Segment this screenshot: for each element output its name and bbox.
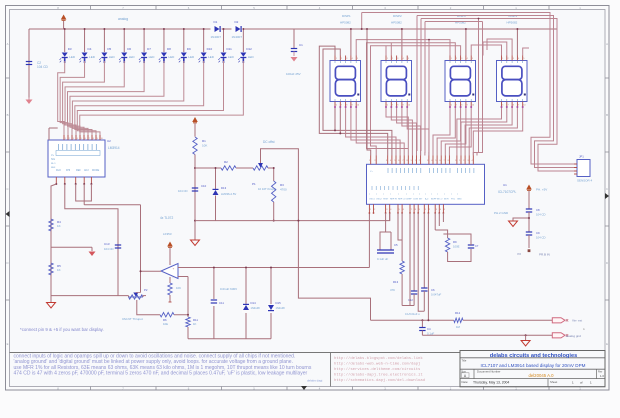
svg-text:4: 4 bbox=[352, 58, 353, 60]
svg-text:1N4007: 1N4007 bbox=[232, 35, 243, 39]
svg-text:104 CD: 104 CD bbox=[104, 247, 113, 251]
svg-text:C6: C6 bbox=[431, 288, 435, 292]
svg-text:P2: P2 bbox=[144, 288, 148, 292]
svg-text:D3: D3 bbox=[68, 47, 72, 51]
svg-text:DISP2: DISP2 bbox=[393, 14, 402, 18]
svg-text:-: - bbox=[173, 275, 174, 279]
svg-text:1: 1 bbox=[387, 58, 388, 60]
svg-text:9: 9 bbox=[467, 105, 468, 107]
svg-text:ADJ: ADJ bbox=[84, 169, 89, 172]
svg-text:HP5082: HP5082 bbox=[507, 21, 518, 25]
svg-text:http://services.deltheme.com/c: http://services.deltheme.com/circuits bbox=[334, 367, 421, 372]
svg-text:10E: 10E bbox=[163, 322, 168, 326]
svg-text:Vin- ext: Vin- ext bbox=[572, 318, 582, 322]
svg-text:R1: R1 bbox=[202, 139, 206, 143]
svg-text:R3: R3 bbox=[280, 183, 284, 187]
svg-text:JP1: JP1 bbox=[579, 155, 584, 159]
svg-text:Sheet: Sheet bbox=[550, 380, 558, 384]
svg-text:ICL7107CPL: ICL7107CPL bbox=[498, 190, 516, 194]
svg-text:*connect pin 9 & +5 if you wan: *connect pin 9 & +5 if you want bar disp… bbox=[20, 327, 104, 332]
svg-text:E: E bbox=[606, 342, 608, 346]
svg-text:C: C bbox=[6, 187, 8, 191]
svg-text:9: 9 bbox=[403, 105, 404, 107]
svg-text:8: 8 bbox=[513, 105, 514, 107]
svg-text:5: 5 bbox=[408, 58, 409, 60]
svg-text:1N4148: 1N4148 bbox=[276, 306, 286, 310]
svg-text:C8: C8 bbox=[536, 208, 540, 212]
svg-text:100E: 100E bbox=[453, 245, 460, 249]
svg-text:P2: P2 bbox=[518, 252, 522, 256]
svg-text:0.1uF uF: 0.1uF uF bbox=[377, 257, 388, 261]
svg-text:LED: LED bbox=[228, 55, 235, 59]
svg-text:+: + bbox=[173, 267, 175, 271]
svg-text:1N4007: 1N4007 bbox=[211, 35, 222, 39]
svg-text:C11: C11 bbox=[219, 301, 224, 305]
svg-text:LED: LED bbox=[109, 55, 116, 59]
svg-text:9: 9 bbox=[518, 105, 519, 107]
svg-text:LM336-2.5V: LM336-2.5V bbox=[221, 192, 236, 196]
svg-text:D4: D4 bbox=[88, 47, 92, 51]
svg-text:IN HI: IN HI bbox=[444, 199, 449, 201]
svg-text:0.047uF: 0.047uF bbox=[431, 293, 442, 297]
svg-text:8: 8 bbox=[93, 138, 94, 140]
svg-text:C13: C13 bbox=[104, 242, 110, 246]
svg-text:2: 2 bbox=[508, 58, 509, 60]
svg-text:10: 10 bbox=[101, 138, 103, 140]
svg-text:REF LO: REF LO bbox=[398, 199, 406, 201]
svg-text:D9: D9 bbox=[187, 47, 191, 51]
svg-text:C9: C9 bbox=[536, 231, 540, 235]
svg-text:10K: 10K bbox=[176, 286, 181, 290]
svg-text:http://delabs.blogspot.com/del: http://delabs.blogspot.com/delabs-link bbox=[334, 356, 423, 361]
svg-text:1: 1 bbox=[451, 58, 452, 60]
svg-text:6: 6 bbox=[85, 138, 86, 140]
svg-text:R2: R2 bbox=[224, 160, 228, 164]
svg-text:1: 1 bbox=[502, 58, 503, 60]
svg-text:P1: P1 bbox=[252, 182, 256, 186]
svg-text:8: 8 bbox=[346, 105, 347, 107]
svg-text:RLO: RLO bbox=[51, 163, 56, 165]
svg-text:104 CD: 104 CD bbox=[536, 236, 545, 240]
svg-text:1.0: 1.0 bbox=[600, 374, 604, 378]
svg-text:7: 7 bbox=[89, 138, 90, 140]
svg-text:ICL7107 and LM3914 based displ: ICL7107 and LM3914 based display for 20m… bbox=[481, 363, 586, 368]
svg-text:4: 4 bbox=[518, 58, 519, 60]
svg-text:A: A bbox=[606, 42, 608, 46]
svg-text:100uF 25V: 100uF 25V bbox=[286, 72, 301, 76]
svg-text:SIG: SIG bbox=[51, 158, 55, 161]
svg-text:delabs circuits and technologi: delabs circuits and technologies bbox=[490, 353, 577, 359]
svg-text:1: 1 bbox=[336, 58, 337, 60]
svg-text:6: 6 bbox=[387, 105, 388, 107]
svg-text:MODE: MODE bbox=[92, 169, 100, 172]
svg-text:CM-NT Thrupot: CM-NT Thrupot bbox=[122, 317, 143, 321]
svg-text:7: 7 bbox=[456, 105, 457, 107]
svg-text:D7: D7 bbox=[147, 47, 151, 51]
svg-text:RLO: RLO bbox=[56, 169, 61, 172]
svg-text:del20045 A.0: del20045 A.0 bbox=[528, 373, 554, 378]
svg-text:1: 1 bbox=[65, 138, 66, 140]
svg-text:47K: 47K bbox=[390, 288, 395, 292]
svg-text:7: 7 bbox=[508, 105, 509, 107]
svg-text:10: 10 bbox=[408, 105, 410, 107]
svg-text:D: D bbox=[6, 261, 8, 265]
svg-text:9: 9 bbox=[352, 105, 353, 107]
svg-text:Date:: Date: bbox=[462, 380, 469, 384]
svg-text:LED: LED bbox=[248, 55, 255, 59]
svg-text:U2: U2 bbox=[107, 139, 111, 143]
svg-text:analog gnd: analog gnd bbox=[566, 334, 581, 338]
svg-text:D: D bbox=[606, 261, 608, 265]
svg-text:D11: D11 bbox=[227, 47, 233, 51]
svg-text:8: 8 bbox=[461, 105, 462, 107]
svg-text:REF HI: REF HI bbox=[390, 199, 397, 201]
svg-text:analog: analog bbox=[118, 17, 128, 21]
svg-text:1K: 1K bbox=[57, 224, 61, 228]
svg-text:0.1/0.01uF u: 0.1/0.01uF u bbox=[405, 312, 420, 316]
svg-text:B: B bbox=[606, 113, 608, 117]
svg-text:D8: D8 bbox=[167, 47, 171, 51]
svg-text:104 CD: 104 CD bbox=[178, 189, 187, 193]
svg-text:CREF: CREF bbox=[406, 199, 412, 201]
svg-text:DC offst: DC offst bbox=[263, 140, 275, 144]
svg-text:7: 7 bbox=[392, 105, 393, 107]
svg-text:E: E bbox=[7, 342, 9, 346]
svg-text:2: 2 bbox=[69, 138, 70, 140]
svg-text:C12: C12 bbox=[408, 298, 413, 302]
svg-text:10: 10 bbox=[523, 105, 525, 107]
svg-text:U1: U1 bbox=[503, 183, 507, 187]
svg-text:HP5082: HP5082 bbox=[391, 21, 402, 25]
svg-text:GND: GND bbox=[457, 199, 462, 201]
svg-text:B: B bbox=[7, 113, 9, 117]
svg-text:1M: 1M bbox=[456, 325, 461, 329]
svg-text:9: 9 bbox=[97, 138, 98, 140]
svg-text:LF353: LF353 bbox=[163, 232, 172, 236]
svg-text:8: 8 bbox=[397, 105, 398, 107]
svg-text:RHI: RHI bbox=[66, 169, 70, 172]
svg-text:6: 6 bbox=[502, 105, 503, 107]
svg-text:OSC1: OSC1 bbox=[369, 199, 376, 201]
svg-text:IN LO: IN LO bbox=[437, 199, 443, 201]
svg-text:1N4148: 1N4148 bbox=[251, 306, 261, 310]
svg-text:4: 4 bbox=[467, 58, 468, 60]
svg-text:D14: D14 bbox=[251, 301, 257, 305]
svg-text:DISP1: DISP1 bbox=[342, 14, 351, 18]
svg-text:TEST: TEST bbox=[383, 199, 389, 201]
svg-text:HP5082: HP5082 bbox=[340, 21, 351, 25]
svg-text:LED: LED bbox=[129, 55, 136, 59]
svg-text:7: 7 bbox=[341, 105, 342, 107]
svg-text:REF: REF bbox=[76, 169, 81, 172]
svg-text:3: 3 bbox=[461, 58, 462, 60]
svg-text:PH. +5V: PH. +5V bbox=[536, 188, 547, 192]
svg-text:5: 5 bbox=[81, 138, 82, 140]
svg-text:D2: D2 bbox=[235, 20, 239, 24]
svg-text:D6: D6 bbox=[127, 47, 131, 51]
svg-text:6: 6 bbox=[336, 105, 337, 107]
svg-text:10: 10 bbox=[472, 105, 474, 107]
svg-text:COM: COM bbox=[413, 199, 418, 201]
svg-text:1K: 1K bbox=[57, 268, 61, 272]
svg-text:10: 10 bbox=[357, 105, 359, 107]
svg-text:of: of bbox=[580, 380, 583, 384]
svg-text:474 CD is 47 with 4 zeros pF,: 474 CD is 47 with 4 zeros pF, 470000 pF,… bbox=[14, 370, 308, 376]
svg-text:5: 5 bbox=[357, 58, 358, 60]
svg-text:D10: D10 bbox=[207, 47, 213, 51]
svg-text:4: 4 bbox=[403, 58, 404, 60]
svg-text:C: C bbox=[606, 187, 608, 191]
svg-text:http://delabs-dapj.tree.electr: http://delabs-dapj.tree.electronics.it bbox=[334, 372, 423, 377]
svg-text:LED: LED bbox=[188, 55, 195, 59]
svg-text:D1: D1 bbox=[214, 20, 218, 24]
svg-text:D15: D15 bbox=[276, 301, 282, 305]
svg-text:1K: 1K bbox=[193, 322, 197, 326]
svg-text:104 CD: 104 CD bbox=[536, 213, 545, 217]
svg-text:R12: R12 bbox=[455, 311, 461, 315]
svg-text:2: 2 bbox=[392, 58, 393, 60]
svg-text:LED: LED bbox=[149, 55, 156, 59]
svg-text:Thursday, May 13, 2004: Thursday, May 13, 2004 bbox=[473, 380, 509, 384]
svg-text:LED: LED bbox=[208, 55, 215, 59]
svg-text:104 CD: 104 CD bbox=[37, 65, 49, 69]
svg-text:C4: C4 bbox=[427, 327, 431, 331]
svg-text:http://delabs-web.web-n-time.c: http://delabs-web.web-n-time.com/dapj bbox=[334, 361, 420, 366]
svg-text:C7: C7 bbox=[475, 244, 479, 248]
svg-text:D12: D12 bbox=[246, 47, 252, 51]
svg-text:R9: R9 bbox=[453, 240, 457, 244]
svg-text:3: 3 bbox=[397, 58, 398, 60]
svg-text:C5: C5 bbox=[394, 243, 398, 247]
svg-text:Title: Title bbox=[462, 358, 467, 362]
svg-text:SENSOR 4: SENSOR 4 bbox=[577, 179, 593, 183]
svg-text:0.01uF 630V: 0.01uF 630V bbox=[220, 287, 237, 291]
svg-text:delabs dapj: delabs dapj bbox=[307, 379, 323, 383]
svg-text:3: 3 bbox=[346, 58, 347, 60]
svg-text:Document Number: Document Number bbox=[477, 369, 501, 373]
svg-text:A: A bbox=[7, 42, 9, 46]
svg-text:LED: LED bbox=[168, 55, 175, 59]
svg-text:R13: R13 bbox=[393, 280, 399, 284]
svg-text:5: 5 bbox=[472, 58, 473, 60]
svg-text:4700: 4700 bbox=[280, 188, 287, 192]
svg-text:4: 4 bbox=[77, 138, 78, 140]
svg-text:10K: 10K bbox=[202, 144, 207, 148]
svg-text:D13: D13 bbox=[221, 186, 227, 190]
svg-text:2: 2 bbox=[341, 58, 342, 60]
svg-text:LED: LED bbox=[89, 55, 96, 59]
svg-text:LM3914: LM3914 bbox=[108, 146, 120, 150]
svg-text:3: 3 bbox=[513, 58, 514, 60]
svg-text:4x TL072: 4x TL072 bbox=[160, 216, 173, 220]
svg-text:5: 5 bbox=[523, 58, 524, 60]
svg-text:OSC2: OSC2 bbox=[376, 199, 383, 201]
svg-text:http://schematics.dapj.com/del: http://schematics.dapj.com/del-download bbox=[334, 378, 425, 383]
svg-text:PH.2 GND: PH.2 GND bbox=[494, 211, 509, 215]
svg-text:3: 3 bbox=[73, 138, 74, 140]
svg-text:LED: LED bbox=[69, 55, 76, 59]
svg-text:C1: C1 bbox=[299, 43, 303, 47]
svg-text:6: 6 bbox=[451, 105, 452, 107]
svg-text:2: 2 bbox=[456, 58, 457, 60]
svg-text:PR.B IN: PR.B IN bbox=[539, 253, 550, 257]
svg-text:D5: D5 bbox=[107, 47, 111, 51]
svg-text:C10: C10 bbox=[201, 184, 207, 188]
